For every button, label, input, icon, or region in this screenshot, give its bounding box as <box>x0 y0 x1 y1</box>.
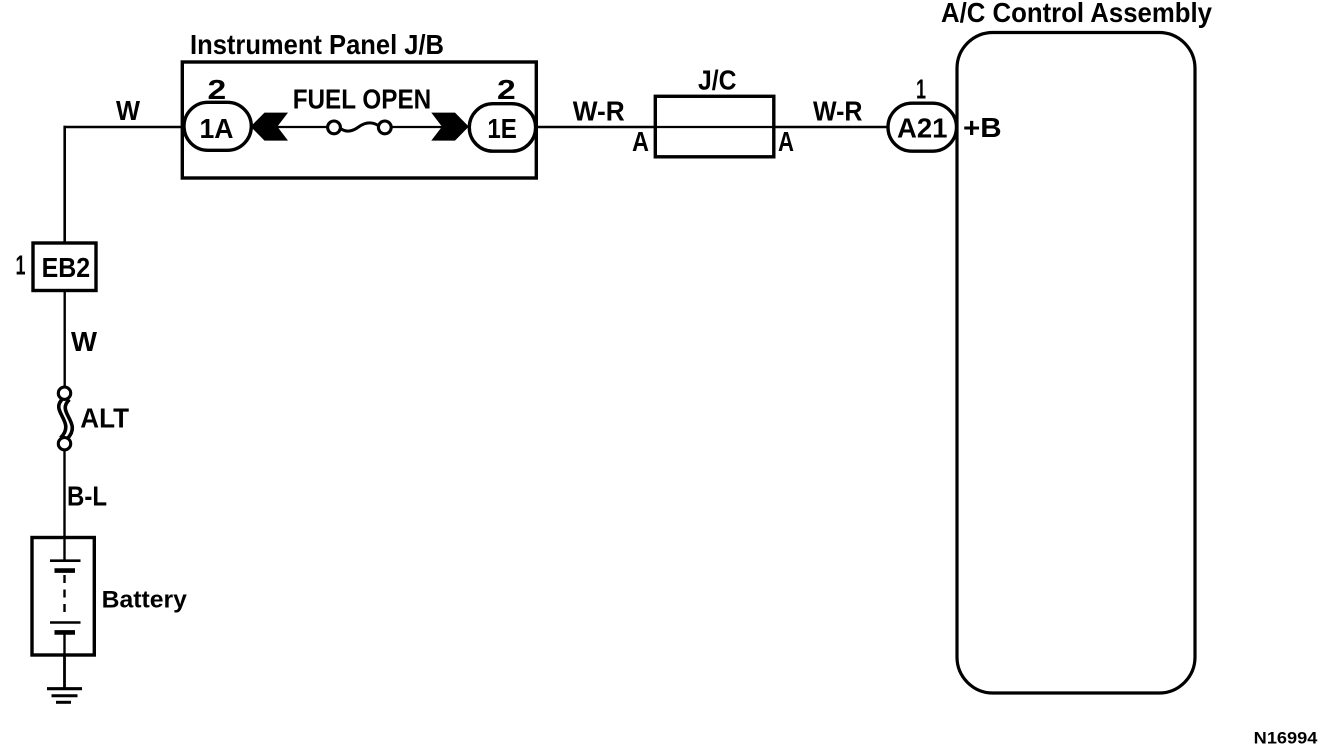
connector 1E <box>469 104 535 152</box>
svg-text:Battery: Battery <box>102 587 188 614</box>
wire from arrow to fuse <box>277 126 328 128</box>
svg-text:A21: A21 <box>897 113 948 144</box>
svg-text:A: A <box>778 126 794 157</box>
svg-text:B-L: B-L <box>67 481 107 512</box>
svg-text:J/C: J/C <box>698 65 737 96</box>
svg-text:EB2: EB2 <box>42 252 91 283</box>
svg-text:2: 2 <box>208 74 227 105</box>
svg-text:1: 1 <box>916 74 926 105</box>
battery <box>32 538 94 656</box>
fuse element <box>328 121 392 134</box>
svg-text:FUEL OPEN: FUEL OPEN <box>293 84 432 115</box>
svg-text:A: A <box>632 126 649 157</box>
svg-text:+B: +B <box>963 112 1002 143</box>
svg-text:1: 1 <box>16 250 26 281</box>
A/C Control Assembly box <box>957 33 1195 694</box>
wire from fuse to arrow <box>392 126 443 128</box>
svg-text:2: 2 <box>497 74 516 105</box>
wire vertical from corner down to EB2 <box>63 126 66 243</box>
svg-text:W: W <box>116 95 140 126</box>
wire from battery to ground <box>63 655 66 688</box>
svg-text:1A: 1A <box>200 113 234 144</box>
junction block Instrument Panel J/B <box>182 62 536 178</box>
fusible link ALT <box>58 387 72 450</box>
wire from EB2 to fusible link ALT <box>63 291 65 388</box>
svg-text:A/C Control Assembly: A/C Control Assembly <box>941 0 1213 28</box>
connector 1A <box>184 102 251 150</box>
wire W horizontal from corner to connector 1A <box>64 126 185 129</box>
wire W-R from J/C to A21 <box>774 126 888 129</box>
connector A21 <box>888 103 957 151</box>
svg-text:Instrument Panel J/B: Instrument Panel J/B <box>190 29 444 60</box>
svg-text:N16994: N16994 <box>1254 729 1318 746</box>
junction connector J/C <box>655 96 774 157</box>
ground <box>47 689 82 703</box>
connector EB2 <box>33 243 96 291</box>
wire W-R from J/B to J/C <box>536 126 655 129</box>
svg-text:ALT: ALT <box>80 403 129 434</box>
svg-text:W: W <box>71 326 97 357</box>
svg-text:W-R: W-R <box>813 96 863 127</box>
svg-text:1E: 1E <box>487 113 517 144</box>
arrow into 1E <box>431 113 469 141</box>
fuse FUEL OPEN (arrow into 1A) <box>251 113 288 141</box>
svg-text:W-R: W-R <box>573 96 625 127</box>
wire from ALT to battery <box>63 450 65 537</box>
